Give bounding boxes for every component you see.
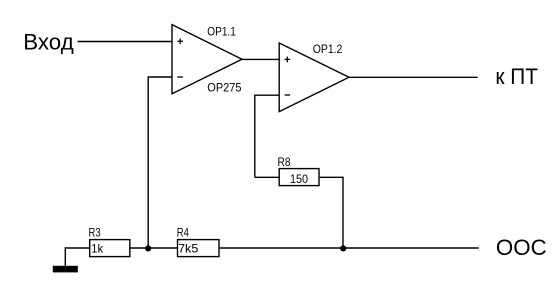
svg-text:R8: R8 xyxy=(278,155,291,169)
svg-text:Вход: Вход xyxy=(23,30,74,55)
svg-text:R3: R3 xyxy=(89,226,101,240)
svg-text:OP1.2: OP1.2 xyxy=(313,42,343,56)
svg-text:R4: R4 xyxy=(177,226,189,240)
svg-text:7k5: 7k5 xyxy=(178,241,199,255)
svg-text:OP1.1: OP1.1 xyxy=(207,25,236,39)
svg-text:ООС: ООС xyxy=(496,235,547,260)
svg-text:OP275: OP275 xyxy=(207,81,241,95)
svg-text:150: 150 xyxy=(290,172,308,186)
svg-text:1k: 1k xyxy=(91,241,104,255)
svg-text:к ПТ: к ПТ xyxy=(495,64,538,89)
